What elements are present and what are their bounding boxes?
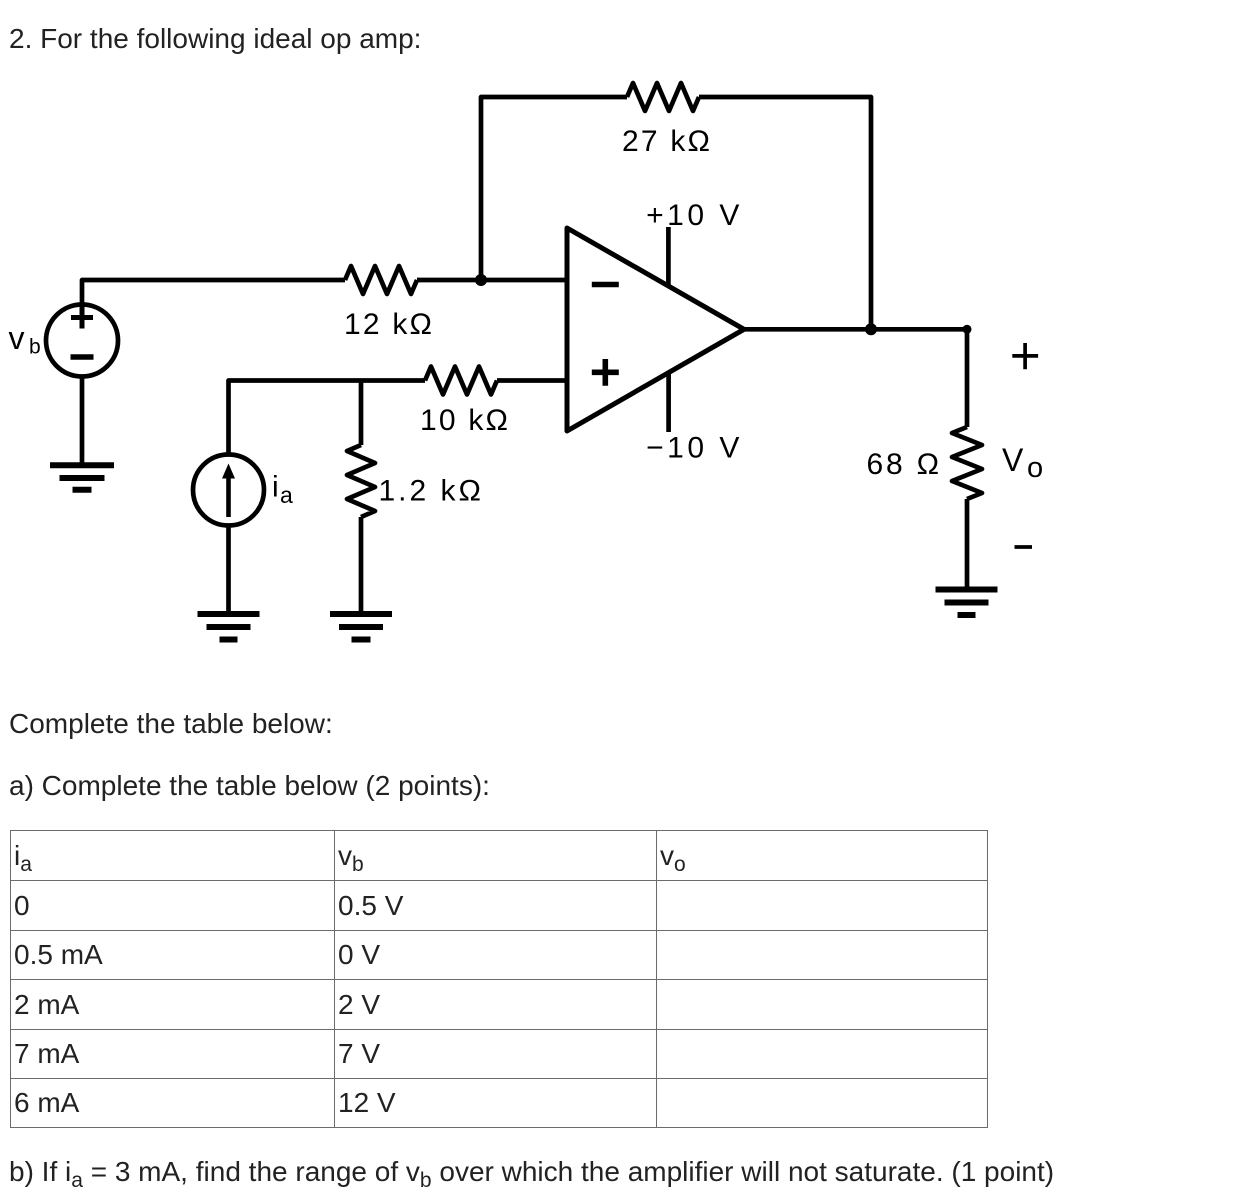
- svg-text:10 kΩ: 10 kΩ: [420, 404, 510, 437]
- node junction dot inverting input: [475, 274, 487, 286]
- supply +10V line: [666, 227, 671, 286]
- paragraph complete: [9, 710, 333, 738]
- wire 12k to opamp minus input: [417, 278, 567, 283]
- svg-text:68 Ω: 68 Ω: [867, 448, 942, 481]
- wire 68 to ground: [965, 499, 970, 587]
- resistor R 27k: [627, 83, 699, 111]
- svg-text:b: b: [29, 336, 41, 359]
- resistor R 10k: [425, 367, 497, 395]
- wire feedback top right and down to output: [699, 97, 871, 329]
- current source ia: [193, 455, 264, 526]
- wire output: [744, 327, 967, 332]
- wire ia branch to 10k: [229, 381, 426, 454]
- svg-text:1.2 kΩ: 1.2 kΩ: [379, 475, 484, 508]
- label minus output: [1015, 545, 1033, 549]
- wire 1.2k branch: [359, 381, 364, 446]
- ground under vb: [50, 465, 114, 490]
- node feedback junction dot: [865, 323, 877, 335]
- op-amp U1: [567, 228, 744, 431]
- svg-text:27 kΩ: 27 kΩ: [622, 125, 712, 158]
- svg-text:o: o: [1027, 452, 1043, 484]
- paragraph a): [9, 772, 490, 800]
- ground under ia: [198, 614, 260, 640]
- wire down to 68: [965, 329, 970, 427]
- ground under 1.2k: [330, 614, 392, 640]
- wire feedback left vertical and top: [481, 97, 627, 280]
- resistor R 68: [952, 427, 982, 499]
- svg-text:V: V: [1002, 442, 1024, 478]
- title: [9, 25, 421, 53]
- node output corner dot: [963, 325, 972, 334]
- wire vb to 12k: [82, 280, 345, 303]
- resistor R 1.2k: [347, 445, 375, 517]
- svg-text:v: v: [9, 320, 25, 356]
- svg-text:−10 V: −10 V: [646, 432, 743, 465]
- wire vb to ground: [80, 378, 85, 465]
- paragraph b): [9, 1158, 1054, 1186]
- opamp minus sign: [592, 282, 619, 288]
- svg-text:a: a: [280, 482, 293, 508]
- wire 1.2k to ground: [359, 517, 364, 612]
- source vb: [46, 305, 118, 377]
- supply -10V line: [666, 373, 671, 432]
- label plus output: [1012, 343, 1038, 369]
- svg-text:+10 V: +10 V: [646, 199, 743, 232]
- ground under 68: [936, 590, 998, 616]
- opamp plus sign: [592, 359, 619, 386]
- resistor R 12k: [345, 266, 417, 294]
- table: [10, 830, 988, 1128]
- wire 10k to opamp plus input: [497, 378, 567, 383]
- svg-text:12 kΩ: 12 kΩ: [344, 308, 434, 341]
- wire ia to ground: [226, 527, 231, 612]
- svg-text:i: i: [272, 471, 279, 504]
